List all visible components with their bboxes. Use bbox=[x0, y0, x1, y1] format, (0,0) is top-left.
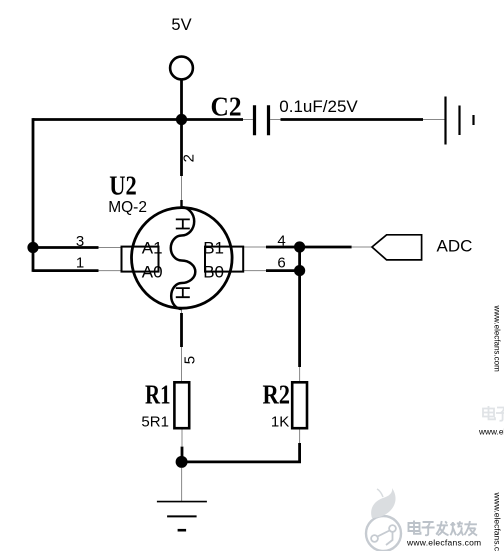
svg-text:B0: B0 bbox=[203, 263, 224, 282]
svg-text:R1: R1 bbox=[145, 380, 171, 410]
svg-text:www.elecfans.com: www.elecfans.com bbox=[493, 305, 502, 373]
svg-text:6: 6 bbox=[277, 255, 285, 272]
svg-text:C2: C2 bbox=[211, 92, 242, 122]
svg-text:1K: 1K bbox=[271, 413, 289, 430]
svg-text:U2: U2 bbox=[109, 170, 137, 200]
svg-text:MQ-2: MQ-2 bbox=[108, 199, 147, 216]
svg-text:5: 5 bbox=[182, 356, 199, 364]
svg-text:A0: A0 bbox=[142, 263, 163, 282]
svg-text:2: 2 bbox=[180, 154, 197, 162]
svg-text:1: 1 bbox=[76, 255, 84, 272]
svg-text:www.elecfans.com: www.elecfans.com bbox=[492, 492, 502, 551]
svg-text:4: 4 bbox=[277, 233, 285, 250]
svg-text:B1: B1 bbox=[203, 239, 224, 258]
svg-text:R2: R2 bbox=[263, 380, 291, 410]
svg-text:3: 3 bbox=[76, 233, 84, 250]
svg-text:www.elecfans.com: www.elecfans.com bbox=[478, 427, 504, 437]
svg-text:5V: 5V bbox=[171, 16, 191, 34]
svg-text:5R1: 5R1 bbox=[141, 413, 169, 430]
svg-text:ADC: ADC bbox=[437, 237, 473, 256]
svg-text:A1: A1 bbox=[142, 239, 163, 258]
svg-text:www.elecfans.com: www.elecfans.com bbox=[406, 538, 481, 548]
svg-text:0.1uF/25V: 0.1uF/25V bbox=[279, 97, 358, 116]
